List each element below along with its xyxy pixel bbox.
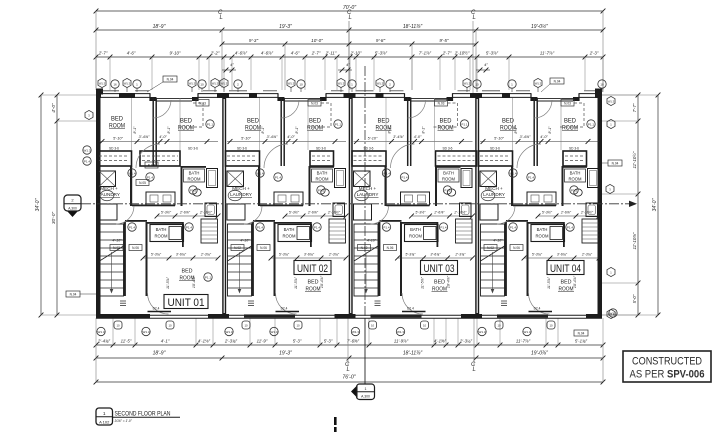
svg-text:5'-3¾": 5'-3¾" — [151, 252, 162, 256]
svg-text:P1.4: P1.4 — [147, 175, 154, 179]
unit 04 vanity — [527, 192, 556, 205]
unit 04 bath lower walls — [529, 222, 565, 224]
svg-text:BED: BED — [309, 119, 322, 125]
svg-text:5'-3½": 5'-3½" — [289, 210, 300, 214]
svg-text:SD 3-6: SD 3-6 — [316, 147, 326, 151]
svg-text:1: 1 — [365, 387, 367, 391]
unit 01 bath upper walls — [182, 166, 206, 168]
svg-text:4'-6⅞": 4'-6⅞" — [261, 51, 274, 56]
svg-text:N.04: N.04 — [167, 78, 174, 82]
outer wall top with windows and entry notches — [96, 93, 150, 95]
svg-text:4'-0": 4'-0" — [540, 135, 548, 139]
svg-text:W1.3: W1.3 — [212, 81, 219, 85]
unit 01 interior dim row lower — [143, 257, 218, 259]
svg-text:19'-0½": 19'-0½" — [531, 23, 548, 30]
svg-text:L: L — [220, 15, 223, 21]
svg-text:W1.4: W1.4 — [128, 171, 135, 175]
unit 04 bath lower label — [531, 225, 565, 242]
svg-text:P1.4: P1.4 — [440, 225, 447, 229]
svg-text:5'-10": 5'-10" — [368, 137, 378, 141]
unit 03 interior dim row — [412, 215, 473, 217]
svg-text:W1.4: W1.4 — [383, 171, 390, 175]
graphic scale mark bottom center — [334, 417, 337, 425]
svg-text:P1.1: P1.1 — [335, 122, 342, 126]
svg-text:W1.3: W1.3 — [270, 330, 277, 334]
outer wall bottom with patio doors — [96, 314, 602, 316]
svg-text:P1.4: P1.4 — [257, 225, 264, 229]
unit 04 closet left — [479, 151, 513, 166]
svg-text:2'-10": 2'-10" — [350, 51, 362, 56]
unit 02 label box — [294, 261, 331, 275]
svg-text:2'-3¼": 2'-3¼" — [459, 338, 473, 343]
patio door unit 03 — [351, 314, 356, 318]
unit 02 bath upper label — [312, 169, 333, 182]
svg-text:2'-6⅞": 2'-6⅞" — [560, 210, 572, 214]
svg-text:3'-6¾": 3'-6¾" — [557, 252, 568, 256]
unit 02 bath upper walls — [310, 166, 334, 168]
unit 02 bedroom interior dim line — [227, 141, 346, 143]
svg-text:N.02: N.02 — [361, 246, 368, 250]
svg-text:W1.3: W1.3 — [225, 330, 232, 334]
svg-text:11'-10½": 11'-10½" — [632, 151, 637, 168]
unit 02 tag P1.1 near party wall — [334, 120, 342, 128]
svg-text:W1.3: W1.3 — [338, 81, 345, 85]
unit 03 door arc bedroom top right — [408, 100, 426, 118]
dimension tier right rooms — [637, 95, 639, 315]
svg-text:UNIT 04: UNIT 04 — [550, 263, 581, 275]
unit 04 note N.03 dashed leader — [561, 100, 574, 107]
svg-text:ROOM: ROOM — [535, 234, 549, 239]
svg-text:2'-10½": 2'-10½" — [454, 51, 470, 56]
section line vertical 1 — [364, 66, 366, 318]
svg-text:2'-6⅞": 2'-6⅞" — [179, 210, 191, 214]
section flag 1/A.300 bottom — [351, 385, 358, 398]
note box N.04 right — [608, 160, 622, 166]
svg-text:2'-7": 2'-7" — [311, 51, 321, 56]
svg-text:4'-1⅛": 4'-1⅛" — [198, 338, 211, 343]
svg-text:5'-3¾": 5'-3¾" — [405, 252, 416, 256]
svg-text:7'-7": 7'-7" — [632, 103, 637, 112]
svg-text:CONSTRUCTED: CONSTRUCTED — [632, 356, 702, 368]
svg-text:UNIT 03: UNIT 03 — [424, 263, 455, 275]
unit 04 label box — [547, 261, 584, 275]
svg-text:P1.5: P1.5 — [444, 188, 451, 192]
svg-text:W1.3: W1.3 — [377, 81, 384, 85]
unit 01 toilet upper — [193, 189, 201, 196]
svg-text:P1.4: P1.4 — [84, 159, 91, 163]
unit 01 bath upper label — [184, 169, 205, 182]
svg-text:D2.4: D2.4 — [153, 307, 160, 311]
svg-text:N.05: N.05 — [139, 181, 146, 185]
svg-text:34'-0": 34'-0" — [652, 198, 658, 211]
svg-text:3'-4⅞": 3'-4⅞" — [393, 135, 404, 139]
svg-text:N.06: N.06 — [387, 246, 394, 250]
unit 02 laundry tub — [228, 190, 242, 200]
svg-text:10: 10 — [200, 82, 204, 86]
svg-text:W1.3: W1.3 — [352, 330, 359, 334]
svg-text:18'-11⅞": 18'-11⅞" — [403, 351, 423, 357]
svg-text:D2.4: D2.4 — [534, 307, 541, 311]
svg-text:SD 3-6: SD 3-6 — [490, 147, 500, 151]
unit 01 bathtub lower — [169, 227, 182, 240]
unit 03 note boxes — [358, 245, 371, 251]
dimension 4'-0" and 30'-0" left — [56, 95, 58, 315]
svg-text:18'-11⅞": 18'-11⅞" — [403, 24, 423, 30]
unit 01 door arc bedroom bottom — [148, 293, 169, 314]
unit 04 laundry tub — [481, 190, 495, 200]
unit 04 door arc mech — [497, 206, 515, 224]
unit 01 boiler — [99, 204, 117, 220]
svg-text:AS PER SPV-006: AS PER SPV-006 — [630, 369, 705, 381]
svg-text:11'-5⅞": 11'-5⅞" — [421, 276, 425, 289]
dimension tier unit widths top — [96, 29, 603, 31]
svg-text:11'-5": 11'-5" — [121, 338, 132, 343]
svg-text:L: L — [473, 367, 476, 373]
unit 02 bedroom divider wall — [280, 98, 282, 167]
unit 02 mech wall — [258, 166, 260, 206]
unit 03 stair direction line — [365, 252, 367, 292]
svg-text:8'-1": 8'-1" — [167, 126, 171, 134]
unit 02 linen shelf hatched — [329, 219, 346, 243]
patio door unit 01 — [96, 314, 150, 318]
svg-text:N.04: N.04 — [578, 332, 585, 336]
unit 01 shower stall — [205, 203, 217, 217]
svg-text:7'-6⅝": 7'-6⅝" — [347, 338, 360, 343]
unit 03 stair break line — [354, 246, 378, 261]
unit 01 hall walls — [132, 205, 175, 207]
svg-text:P1.4: P1.4 — [401, 175, 408, 179]
unit 02 stair wall — [252, 222, 254, 296]
svg-text:L: L — [473, 15, 476, 21]
svg-text:ROOM: ROOM — [568, 177, 582, 182]
svg-text:BED: BED — [308, 280, 319, 286]
bubble right end bottom — [609, 309, 617, 317]
svg-text:4'-6⅞": 4'-6⅞" — [235, 51, 248, 56]
svg-text:P1.1: P1.1 — [588, 122, 595, 126]
svg-text:5'-3": 5'-3" — [324, 338, 333, 343]
svg-text:W1.3: W1.3 — [535, 81, 542, 85]
unit 04 closet right — [563, 151, 587, 166]
svg-text:N.06: N.06 — [260, 246, 267, 250]
grid bubbles bottom row — [97, 321, 174, 336]
svg-text:ROOM: ROOM — [442, 177, 456, 182]
svg-text:9'-3": 9'-3" — [249, 38, 259, 43]
unit 03 bath lower label — [405, 225, 439, 242]
unit 04 interior dim row lower — [524, 257, 599, 259]
svg-text:3'-6¾": 3'-6¾" — [176, 252, 187, 256]
unit 04 tag P1.1 near party wall — [587, 120, 595, 128]
dimension tier detail top — [96, 56, 603, 58]
unit 03 bath upper walls — [437, 166, 461, 168]
svg-text:W1.3: W1.3 — [221, 81, 228, 85]
svg-text:D2.4: D2.4 — [281, 307, 288, 311]
svg-text:N.03: N.03 — [438, 102, 445, 106]
svg-text:BATH: BATH — [284, 227, 295, 232]
svg-text:2'-10½": 2'-10½" — [199, 210, 213, 214]
unit 02 toilet upper — [321, 189, 329, 196]
unit 01 laundry tub — [100, 190, 114, 200]
unit 01 bath lower walls — [148, 222, 184, 224]
unit 03 bathtub upper — [461, 169, 472, 188]
unit 03 bath upper label — [438, 169, 459, 182]
svg-text:4'-0": 4'-0" — [287, 135, 295, 139]
unit 02 door arc bedroom top right — [281, 100, 299, 118]
top wall corner block left — [96, 89, 103, 95]
unit 01 fixture tags — [128, 169, 136, 177]
unit 04 stair break line — [481, 246, 505, 261]
svg-text:D2.4: D2.4 — [407, 307, 414, 311]
svg-text:19'-3": 19'-3" — [279, 24, 292, 30]
svg-text:76'-0": 76'-0" — [342, 375, 356, 381]
svg-text:10: 10 — [244, 324, 248, 328]
svg-text:SD 3-6: SD 3-6 — [109, 147, 119, 151]
unit 02 door arc bedroom bottom — [276, 293, 297, 314]
svg-text:N.04: N.04 — [70, 293, 77, 297]
unit 04 stair note marks — [501, 300, 507, 302]
party wall 2 — [349, 93, 353, 317]
svg-text:A 102: A 102 — [99, 419, 110, 424]
svg-text:2'-10½": 2'-10½" — [453, 210, 467, 214]
unit 01 linen shelf hatched — [201, 219, 218, 243]
svg-text:11'-7⅞": 11'-7⅞" — [540, 51, 555, 56]
svg-text:4'-0": 4'-0" — [414, 135, 422, 139]
svg-text:11'-9⅞": 11'-9⅞" — [394, 338, 409, 343]
svg-text:P1.4: P1.4 — [383, 225, 390, 229]
dimension 76'-0" overall bottom — [96, 381, 603, 383]
svg-text:18'-9": 18'-9" — [153, 351, 166, 357]
svg-text:4": 4" — [346, 62, 350, 67]
svg-text:10'-0": 10'-0" — [311, 38, 323, 43]
note box N.04 bottom right — [574, 330, 588, 336]
stamp CONSTRUCTED AS PER SPV-006 — [623, 351, 711, 382]
svg-text:BATH: BATH — [570, 171, 581, 176]
svg-text:BATH: BATH — [537, 227, 548, 232]
unit 03 closet right — [436, 151, 477, 166]
unit 03 stair wall — [378, 222, 380, 296]
section line horizontal 2 — [81, 203, 630, 205]
svg-text:W1.3: W1.3 — [124, 81, 131, 85]
unit 01 note boxes — [110, 245, 123, 251]
unit 02 interior dim row lower — [271, 257, 346, 259]
unit 03 shower stall — [460, 203, 472, 217]
svg-text:2'-3¾": 2'-3¾" — [224, 338, 238, 343]
svg-text:2'-10½": 2'-10½" — [327, 210, 341, 214]
unit 02 bathtub upper — [335, 169, 346, 188]
svg-text:UNIT 02: UNIT 02 — [297, 263, 328, 275]
svg-text:5'-3⅞": 5'-3⅞" — [375, 51, 388, 56]
svg-text:BATH: BATH — [317, 171, 328, 176]
svg-text:4'-0": 4'-0" — [51, 103, 57, 113]
svg-text:W1.3: W1.3 — [397, 330, 404, 334]
svg-text:8'-1": 8'-1" — [422, 126, 426, 134]
svg-text:9'-5": 9'-5" — [439, 38, 449, 43]
unit 04 mech wall — [511, 166, 513, 206]
unit 02 stair note marks — [248, 300, 254, 302]
unit 03 stair note marks — [375, 300, 381, 302]
svg-text:BATH: BATH — [156, 227, 167, 232]
unit 04 stairs — [481, 224, 505, 296]
svg-text:SECOND FLOOR PLAN: SECOND FLOOR PLAN — [115, 411, 171, 418]
svg-text:BATH: BATH — [189, 171, 200, 176]
svg-text:P1.4: P1.4 — [567, 225, 574, 229]
unit 02 washer — [227, 171, 244, 187]
outer wall right — [598, 93, 603, 317]
svg-text:8'-1": 8'-1" — [295, 126, 299, 134]
svg-text:30'-0": 30'-0" — [51, 212, 57, 225]
svg-text:10: 10 — [371, 324, 375, 328]
note box N.04 left margin — [66, 291, 80, 297]
dimension 34'-0" right overall — [657, 95, 659, 315]
unit 01 mech wall — [130, 166, 132, 206]
unit 04 bath upper walls — [563, 166, 587, 168]
svg-text:11'-7⅞": 11'-7⅞" — [516, 338, 531, 343]
svg-text:8'-1": 8'-1" — [261, 126, 265, 134]
svg-text:4": 4" — [484, 62, 488, 67]
unit 01 stair note marks — [120, 300, 126, 302]
svg-text:ROOM: ROOM — [187, 177, 201, 182]
unit 02 stairs — [228, 224, 252, 296]
svg-text:3/16" = 1'-0": 3/16" = 1'-0" — [115, 419, 133, 423]
svg-text:5'-3½": 5'-3½" — [415, 210, 426, 214]
svg-text:3'-6¾": 3'-6¾" — [430, 252, 441, 256]
unit 01 stairs — [100, 224, 124, 296]
svg-text:10'-4⅞": 10'-4⅞" — [447, 275, 451, 288]
svg-text:2'-6⅞": 2'-6⅞" — [307, 210, 319, 214]
unit 03 bedroom extension lines — [385, 98, 387, 150]
dimension tier detail bottom — [96, 344, 603, 346]
svg-text:ROOM: ROOM — [282, 234, 296, 239]
patio door unit 04 — [477, 314, 482, 318]
unit 02 stair direction line — [239, 252, 241, 292]
svg-text:P1.5: P1.5 — [190, 188, 197, 192]
title block drawing number — [96, 408, 113, 425]
svg-text:2'-10½": 2'-10½" — [580, 210, 594, 214]
dimension tier unit widths bottom — [96, 357, 603, 359]
unit 03 washer — [354, 171, 371, 187]
unit 03 door arc bedroom top — [391, 144, 415, 168]
svg-text:5'-3¾": 5'-3¾" — [279, 252, 290, 256]
unit 01 door arc bedroom top right — [153, 100, 171, 118]
svg-text:9'-10": 9'-10" — [170, 51, 181, 56]
svg-text:2'-6⅞": 2'-6⅞" — [433, 210, 445, 214]
svg-text:34'-0": 34'-0" — [35, 198, 41, 211]
unit 02 interior dim row — [285, 215, 346, 217]
unit 03 interior dim row lower — [398, 257, 473, 259]
svg-text:N.03: N.03 — [311, 102, 318, 106]
unit 04 note boxes — [484, 245, 497, 251]
svg-text:3'-4⅞": 3'-4⅞" — [520, 135, 531, 139]
unit 03 vanity — [401, 192, 430, 205]
unit 04 stair wall — [505, 222, 507, 296]
svg-text:10'-4⅞": 10'-4⅞" — [573, 275, 577, 288]
svg-text:W1.3: W1.3 — [97, 330, 104, 334]
unit 04 interior dim row — [538, 215, 599, 217]
unit 03 bedroom interior dim line — [354, 141, 473, 143]
unit 02 hall walls — [260, 205, 303, 207]
svg-text:2'-3¾": 2'-3¾" — [328, 252, 340, 256]
unit 04 stair direction line — [492, 252, 494, 292]
unit 02 door arc bedroom top — [264, 144, 288, 168]
svg-text:10: 10 — [296, 324, 300, 328]
unit 04 linen shelf hatched — [582, 219, 599, 243]
unit 01 interior dim row — [157, 215, 218, 217]
svg-text:W1.3: W1.3 — [464, 81, 471, 85]
svg-text:W1.3: W1.3 — [288, 81, 295, 85]
svg-text:2'-2": 2'-2" — [210, 51, 220, 56]
svg-text:11'-5⅞": 11'-5⅞" — [294, 276, 298, 289]
svg-text:4'-10": 4'-10" — [367, 239, 377, 243]
svg-text:10: 10 — [600, 82, 604, 86]
grid bubble left — [85, 110, 93, 119]
svg-text:ROOM: ROOM — [409, 234, 423, 239]
svg-text:W1.3: W1.3 — [608, 99, 615, 103]
party wall 1 — [222, 93, 226, 317]
svg-text:5'-3½": 5'-3½" — [161, 210, 172, 214]
unit 02 vanity — [274, 192, 303, 205]
svg-text:W1.3: W1.3 — [609, 311, 616, 315]
svg-text:5'-10": 5'-10" — [241, 137, 251, 141]
svg-text:4'-1": 4'-1" — [161, 338, 170, 343]
svg-text:2'-3¾": 2'-3¾" — [454, 252, 466, 256]
unit 02 note boxes — [231, 245, 244, 251]
unit 01 bath lower label — [150, 225, 184, 242]
svg-text:P1.4: P1.4 — [528, 175, 535, 179]
unit 01 note N.03 dashed leader — [196, 100, 209, 107]
svg-text:11'-5⅞": 11'-5⅞" — [166, 276, 170, 289]
section flag 2/A.300 left — [64, 195, 81, 211]
svg-text:BED: BED — [111, 117, 124, 123]
svg-text:P1.1: P1.1 — [461, 122, 468, 126]
svg-text:W1.4: W1.4 — [509, 171, 516, 175]
unit 01 bedroom extension lines — [131, 98, 133, 150]
svg-text:BED: BED — [180, 119, 193, 125]
svg-text:BED: BED — [247, 119, 260, 125]
svg-text:SD 3-6: SD 3-6 — [237, 147, 247, 151]
unit 03 mech wall — [385, 166, 387, 206]
svg-text:8'-1": 8'-1" — [388, 126, 392, 134]
svg-text:4'-10": 4'-10" — [493, 239, 503, 243]
unit 04 bedroom divider wall — [533, 98, 535, 167]
unit 03 laundry tub — [355, 190, 369, 200]
unit 03 closet left — [352, 151, 386, 166]
svg-text:A.300: A.300 — [68, 206, 77, 210]
unit 01 label box — [164, 295, 208, 309]
svg-text:4'-10": 4'-10" — [112, 239, 122, 243]
svg-text:BATH: BATH — [443, 171, 454, 176]
unit 03 tag P1.1 near party wall — [460, 120, 468, 128]
svg-text:P1.1: P1.1 — [207, 122, 214, 126]
unit 03 door arc mech — [371, 206, 389, 224]
svg-text:11'-10⅞": 11'-10⅞" — [632, 232, 637, 249]
svg-text:BATH: BATH — [410, 227, 421, 232]
unit 01 bedroom divider wall — [152, 98, 154, 167]
unit 04 door arc bedroom bottom — [529, 293, 550, 314]
svg-text:N.06: N.06 — [513, 246, 520, 250]
svg-text:ROOM: ROOM — [154, 234, 168, 239]
svg-text:W1.3: W1.3 — [83, 148, 90, 152]
unit 04 door arc bedroom top right — [534, 100, 552, 118]
svg-text:18'-9": 18'-9" — [153, 24, 166, 30]
svg-text:10'-4⅞": 10'-4⅞" — [320, 275, 324, 288]
svg-text:BED: BED — [378, 119, 391, 125]
svg-text:P1.4: P1.4 — [314, 225, 321, 229]
unit 04 toilet upper — [574, 189, 582, 196]
svg-text:P1.4: P1.4 — [186, 225, 193, 229]
unit 01 door arc bedroom top — [136, 144, 160, 168]
svg-text:BED: BED — [440, 119, 453, 125]
svg-text:P1.4: P1.4 — [510, 225, 517, 229]
svg-text:BED: BED — [561, 280, 572, 286]
